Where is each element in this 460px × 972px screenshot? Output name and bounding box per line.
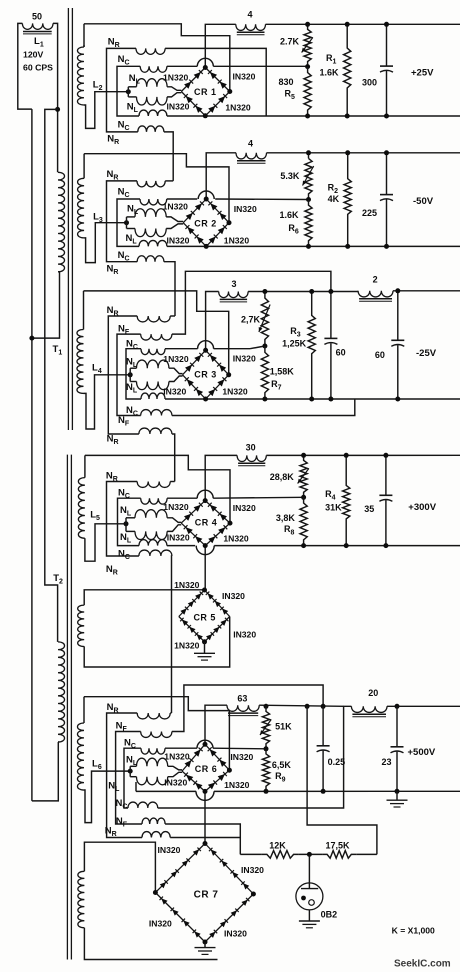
wire 0B2 bottom lead [308, 910, 310, 921]
wire bottom rail +300V return [167, 545, 195, 547]
svg-text:3: 3 [231, 279, 236, 289]
svg-text:12K: 12K [269, 840, 286, 850]
ground 0B2 [299, 920, 320, 922]
node bottom rail dots s3 [262, 397, 267, 402]
svg-text:IN320: IN320 [222, 591, 245, 601]
wire L3 top to feed [83, 154, 85, 179]
node choke20 out [395, 704, 400, 709]
winding NR bracket CR1 [107, 48, 138, 131]
winding NR bracket CR6 [107, 713, 142, 838]
svg-text:4: 4 [247, 10, 252, 20]
wire CR7 loop bottom edge [84, 928, 217, 960]
wire NR1 chain up s3 [170, 315, 175, 317]
inductor choke 30 (CR4 output) [237, 455, 266, 461]
winding NC bracket CR3 [126, 349, 141, 399]
inductor L1 (50) with core [22, 23, 53, 29]
wire T1 primary bottom return [32, 272, 60, 338]
wire L2 top to feed [83, 24, 85, 47]
node source junction [55, 107, 60, 112]
wire CR5 loop top edge [84, 590, 204, 605]
wire NR1 to common rail [165, 48, 266, 116]
svg-text:225: 225 [362, 208, 377, 218]
capacitor 225 [386, 153, 388, 195]
svg-text:IN320: IN320 [164, 778, 187, 788]
winding L4 secondary [77, 330, 84, 394]
bridge CR2 [183, 199, 206, 223]
wire feed line CR1 [84, 24, 230, 92]
wire L4 top to feed [83, 291, 85, 330]
svg-text:1,58K: 1,58K [270, 367, 295, 377]
wire bottom rail -25V return [165, 398, 460, 400]
winding NC bracket CR1 [117, 66, 140, 116]
svg-text:SeekIC.com: SeekIC.com [394, 959, 451, 970]
wire NL pinch CR1 [167, 87, 181, 91]
winding NC upper CR4 [141, 498, 167, 504]
wire top rail -25V a [248, 291, 358, 293]
winding NR lower CR4 [139, 550, 172, 556]
winding NR lower CR3 [139, 428, 172, 434]
wire rail stub left [135, 782, 137, 791]
resistor 12K [262, 851, 299, 859]
winding NC upper CR1 [140, 66, 167, 72]
wire NF2 to output bottom [172, 399, 355, 416]
svg-text:IN320: IN320 [241, 865, 264, 875]
winding NC lower CR4 [139, 540, 167, 546]
svg-text:30: 30 [246, 443, 256, 453]
wire 0B2 top lead [308, 854, 310, 888]
svg-text:60: 60 [336, 348, 346, 358]
wire bottom rail -50V return [167, 245, 460, 247]
wire feed line CR3 [84, 291, 229, 375]
capacitor 300 [386, 24, 388, 66]
svg-text:CR 6: CR 6 [195, 764, 218, 774]
resistor R8 3,8K [300, 497, 307, 545]
winding NF upper CR3 [141, 334, 172, 340]
svg-text:120V: 120V [23, 50, 43, 60]
svg-text:1N320: 1N320 [163, 354, 189, 364]
svg-text:2,7K: 2,7K [241, 315, 261, 325]
inductor choke 3 (CR3 output) [219, 292, 248, 298]
svg-text:CR 3: CR 3 [194, 370, 217, 380]
winding CR5 loop secondary [78, 605, 85, 646]
winding NC lower CR6 [128, 802, 158, 808]
resistor R6 1.6K [305, 200, 312, 247]
svg-text:4K: 4K [328, 194, 340, 204]
winding NC upper CR6 [141, 748, 165, 754]
winding NR upper CR6 [137, 713, 170, 719]
svg-text:1.6K: 1.6K [320, 68, 340, 78]
svg-text:35: 35 [364, 504, 374, 514]
resistor 2.7K rheostat [304, 24, 311, 66]
node tap dot s3 [262, 344, 267, 349]
node bottom rail dots s1 [305, 114, 310, 119]
winding NL upper CR3 [130, 367, 136, 369]
winding NF upper CR6 [141, 732, 172, 738]
svg-text:CR 1: CR 1 [194, 87, 217, 97]
node tap dot s1 [305, 64, 310, 69]
winding NL upper CR1 [128, 86, 136, 88]
svg-text:830: 830 [279, 77, 294, 87]
wire feed line CR6 [84, 697, 229, 771]
winding NR upper CR3 [137, 316, 170, 322]
resistor R2 4K [344, 153, 351, 247]
wire NC1 to tap [167, 65, 197, 67]
svg-text:1N320: 1N320 [225, 103, 251, 113]
svg-text:CR 5: CR 5 [193, 613, 216, 623]
wire top rail -50V [267, 152, 460, 154]
wire bridge CR3 top lead [206, 292, 219, 351]
wire CR7 bottom stub [204, 942, 206, 948]
winding NR upper CR4 [137, 482, 170, 488]
winding NR lower CR2 [137, 256, 164, 262]
svg-text:CR 2: CR 2 [194, 219, 217, 229]
wire 12K-17.5K link [299, 853, 323, 855]
winding NC lower CR1 [139, 110, 167, 116]
svg-text:0B2: 0B2 [321, 910, 338, 920]
ground CR7 [195, 947, 216, 949]
winding NL lower CR4 [126, 530, 135, 532]
wire NC1 to tap s6 [165, 747, 197, 749]
wire NL bracket CR4 [125, 518, 127, 532]
wire NL pinch CR6 [168, 766, 182, 770]
resistor 51K rheostat [262, 706, 269, 749]
resistor R1 1.6K [344, 24, 351, 116]
winding NC bracket CR6 [124, 748, 141, 808]
svg-text:CR 4: CR 4 [195, 518, 218, 528]
capacitor 23 [396, 706, 398, 747]
wire bridge CR2 top lead [206, 153, 236, 199]
winding NR lower CR6 [142, 832, 170, 838]
winding NC lower CR3 [141, 393, 165, 399]
svg-text:IN320: IN320 [167, 102, 190, 112]
wire +500V rail [387, 705, 460, 707]
svg-text:1N320: 1N320 [163, 202, 189, 212]
inductor choke 4 (CR2 output) [236, 153, 267, 159]
svg-text:IN320: IN320 [149, 919, 172, 929]
winding NC lower CR2 [139, 240, 167, 246]
svg-text:17,5K: 17,5K [326, 840, 351, 850]
resistor R9 6,5K [262, 749, 269, 792]
node L5 dot [124, 521, 129, 526]
winding NR bracket CR2 [107, 181, 138, 262]
winding NL upper CR2 [127, 216, 136, 218]
winding L2 secondary [77, 47, 84, 105]
svg-text:1.6K: 1.6K [280, 210, 300, 220]
resistor 28,8K rheostat [300, 455, 307, 497]
wire bridge CR6 bottom to CR7 [204, 791, 206, 843]
svg-text:-50V: -50V [413, 196, 434, 207]
winding NL upper CR6 [130, 765, 136, 767]
bridge CR4 [181, 501, 205, 523]
wire NR2 to bias [170, 837, 240, 839]
svg-text:IN320: IN320 [234, 204, 257, 214]
svg-text:IN320: IN320 [230, 752, 253, 762]
wire L6 bottom wrap [84, 771, 130, 823]
winding NC bracket CR2 [117, 199, 140, 246]
svg-text:0.25: 0.25 [328, 757, 346, 767]
winding NF bracket CR6 [116, 732, 142, 825]
resistor 5.3K rheostat [305, 153, 312, 200]
svg-text:23: 23 [382, 757, 392, 767]
wire NC2 line to choke20 [158, 706, 352, 808]
svg-text:1N320: 1N320 [174, 641, 200, 651]
wire source hot branch [45, 109, 58, 642]
svg-text:300: 300 [362, 78, 377, 88]
wire NL pinch CR3 [169, 368, 183, 373]
winding L6 secondary [77, 723, 84, 790]
node cap60b top [395, 288, 400, 293]
capacitor 0.25 [322, 706, 324, 746]
svg-text:1N320: 1N320 [163, 502, 189, 512]
wire 17.5K right lead [356, 853, 377, 855]
node cap60a top [328, 289, 333, 294]
node bias node [307, 852, 312, 857]
node 2.7K top [305, 22, 310, 27]
wire L2 bottom wrap [84, 92, 128, 129]
wire L1 right lead down [53, 23, 58, 172]
node cap35 top [383, 453, 388, 458]
svg-text:31K: 31K [325, 503, 342, 513]
winding NC upper CR3 [141, 349, 165, 355]
svg-text:-25V: -25V [416, 348, 437, 359]
wire NR2 chain down s4 [171, 556, 173, 713]
wire bridge CR6 top lead [205, 705, 227, 744]
capacitor 35 [385, 455, 387, 495]
wire 63 line [259, 705, 343, 706]
ground CR5 [194, 652, 215, 654]
svg-text:IN320: IN320 [233, 354, 256, 364]
wire feed line CR2 [84, 154, 229, 223]
svg-text:1N320: 1N320 [223, 534, 249, 544]
svg-text:1N320: 1N320 [224, 780, 250, 790]
node cap225 top [384, 150, 389, 155]
resistor R4 31K [343, 455, 350, 545]
wire NF1 to output top [172, 271, 331, 334]
transformer T1 primary winding [58, 172, 65, 271]
bridge CR5 [179, 590, 205, 617]
node L6 dot [128, 769, 133, 774]
svg-text:51K: 51K [275, 722, 292, 732]
wire L6 top to feed [83, 697, 85, 723]
winding NC upper CR2 [140, 199, 167, 205]
svg-text:+25V: +25V [411, 68, 434, 79]
bridge CR3 [183, 350, 206, 375]
svg-text:20: 20 [368, 688, 378, 698]
winding L5 secondary [78, 478, 85, 539]
svg-text:IN320: IN320 [233, 630, 256, 640]
wire NR1 chain up (from CR1) [165, 180, 173, 182]
svg-text:CR 7: CR 7 [194, 890, 219, 901]
svg-text:1N320: 1N320 [222, 387, 248, 397]
node tap dot s4 [301, 495, 306, 500]
winding NL lower CR3 [130, 381, 136, 383]
node R2 top [345, 150, 350, 155]
svg-text:IN320: IN320 [167, 533, 190, 543]
svg-text:1N320: 1N320 [163, 73, 189, 83]
node L4 dot [128, 372, 133, 377]
svg-text:+300V: +300V [408, 502, 436, 513]
wire NR1 chain up s4 [170, 481, 175, 483]
svg-text:5.3K: 5.3K [280, 171, 300, 181]
wire NR2 chain down [164, 132, 173, 181]
wire NF2 to bias [165, 824, 240, 854]
tube 0B2 [296, 883, 323, 910]
svg-text:60 CPS: 60 CPS [23, 63, 53, 73]
wire NC1 to tap s3 [165, 348, 198, 350]
inductor choke 2 (CR3 output filter) [358, 291, 393, 297]
wire L3 bottom wrap [84, 223, 126, 263]
transformer T2 core [66, 455, 68, 960]
transformer T1 core [67, 8, 69, 430]
resistor R7 1,58K [261, 346, 268, 399]
bridge CR7 [155, 844, 205, 893]
svg-text:3,8K: 3,8K [276, 513, 296, 523]
node L3 dot [124, 220, 129, 225]
wire top rail +25V [266, 23, 460, 25]
wire 17.5K feed [307, 706, 377, 854]
node 5.3K top [306, 150, 311, 155]
svg-text:2: 2 [373, 275, 378, 285]
svg-text:IN320: IN320 [158, 845, 181, 855]
resistor R5 830 [304, 67, 311, 116]
svg-text:1,25K: 1,25K [282, 339, 307, 349]
node bottom rail dots s4 [301, 543, 306, 548]
winding CR7 loop secondary [78, 871, 85, 927]
svg-text:1N320: 1N320 [224, 236, 250, 246]
winding NR bracket CR3 [108, 316, 139, 434]
capacitor 60 (first) [330, 292, 332, 339]
svg-text:1N320: 1N320 [164, 752, 190, 762]
winding NL upper CR4 [126, 517, 135, 519]
winding NF lower CR6 [142, 818, 165, 824]
node L2 dot [126, 89, 131, 94]
transformer T2 primary winding [58, 642, 65, 742]
wire NC1 to tap s2 [167, 198, 198, 200]
node bottom rail dots s6 [264, 789, 269, 794]
wire CR5 loop bottom edge [84, 617, 230, 668]
bridge CR1 [181, 68, 205, 92]
svg-text:K = X1,000: K = X1,000 [392, 926, 435, 936]
wire NL pinch CR4 [167, 518, 181, 523]
svg-text:63: 63 [237, 694, 247, 704]
svg-text:IN320: IN320 [233, 503, 256, 513]
winding NL lower CR6 [130, 776, 136, 778]
wire feed line CR4 [85, 455, 230, 523]
winding NR upper CR1 [136, 48, 165, 54]
wire NL bracket CR2 [126, 217, 128, 229]
wire L5 top to feed [84, 455, 86, 477]
inductor choke 20 (+500V) [351, 706, 387, 712]
wire bridge CR1 bottom stub [204, 115, 206, 117]
wire bridge CR4 top lead [205, 455, 237, 500]
svg-text:2.7K: 2.7K [280, 37, 300, 47]
wire top rail +300V [266, 454, 460, 456]
node 2,7K top [262, 289, 267, 294]
node bottom rail dots s2 [306, 244, 311, 249]
wire NL bracket CR3 [129, 368, 131, 381]
wire NL pinch CR2 [166, 217, 183, 222]
resistor 17.5K [322, 851, 356, 859]
winding NR bracket CR4 [107, 482, 139, 557]
wire CR7 loop top edge [84, 842, 155, 892]
capacitor 60 (second) [397, 291, 399, 341]
svg-text:6,5K: 6,5K [272, 760, 292, 770]
node 28.8K top [301, 453, 306, 458]
wire L1 left lead [18, 23, 32, 109]
winding NC bracket CR4 [118, 498, 141, 545]
wire top rail -25V b [393, 290, 460, 292]
winding NL lower CR1 [128, 96, 136, 98]
wire L5 bottom wrap [85, 524, 126, 561]
ground +500V return [396, 791, 398, 800]
svg-text:IN320: IN320 [167, 236, 190, 246]
wire NL bracket CR1 [127, 87, 129, 97]
wire T2 primary bottom return [32, 742, 58, 801]
wire bridge CR4 bottom to CR5 [204, 546, 206, 590]
wire bridge CR1 top lead [205, 24, 236, 67]
svg-text:4: 4 [248, 139, 253, 149]
node tap dot s6 [264, 746, 269, 751]
wire L4 bottom wrap [84, 375, 131, 429]
winding NL lower CR2 [127, 228, 136, 230]
svg-text:IN320: IN320 [233, 72, 256, 82]
node R3 top [309, 289, 314, 294]
node tap dot s2 [306, 197, 311, 202]
wire bias line [240, 853, 262, 855]
winding NF lower CR3 [141, 410, 172, 416]
wire rail CR6 bottom [136, 790, 196, 792]
inductor choke 63 (CR6 output) [227, 705, 259, 711]
wire NL bracket CR6 [129, 766, 131, 776]
svg-text:IN320: IN320 [224, 929, 247, 939]
wire NR1 chain up s6 [170, 712, 171, 714]
bridge CR6 [182, 744, 205, 771]
svg-text:60: 60 [375, 350, 385, 360]
node cap300 top [384, 22, 389, 27]
wire NR2 chain down s2 [164, 262, 175, 316]
winding NR upper CR2 [137, 181, 165, 187]
winding NR lower CR1 [138, 126, 164, 132]
svg-text:50: 50 [32, 12, 42, 22]
svg-text:IN320: IN320 [163, 387, 186, 397]
node 63-line dots [264, 704, 269, 709]
wire NF1 to output top [172, 685, 323, 732]
node R1 top [345, 22, 350, 27]
wire NC1 to tap s4 [167, 497, 197, 499]
node T1 primary-neutral junction [29, 336, 34, 341]
svg-text:28,8K: 28,8K [270, 472, 295, 482]
svg-text:+500V: +500V [408, 747, 436, 758]
svg-text:1N320: 1N320 [174, 580, 200, 590]
wire source neutral vertical [31, 109, 33, 801]
winding L3 secondary [78, 178, 85, 238]
winding NF bracket CR3 [117, 334, 141, 415]
resistor 2,7K rheostat s3 [261, 292, 268, 347]
wire CR5 bottom stub [204, 642, 206, 654]
node R4 top [344, 453, 349, 458]
resistor R3 1,25K [308, 292, 315, 400]
wire bottom rail +25V return [167, 115, 460, 117]
inductor choke 4 (CR1 output) [236, 24, 266, 30]
wire NR2 chain down s3 [172, 434, 175, 482]
